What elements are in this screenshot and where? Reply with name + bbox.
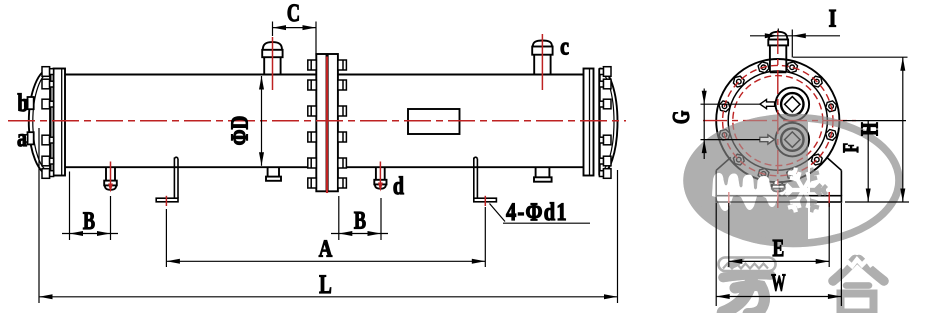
dimension G: [703, 89, 705, 160]
gray ring right part: [687, 118, 899, 244]
drain stub mid: [267, 167, 269, 176]
bottom nozzle left: [105, 167, 107, 180]
red bolt circles: [723, 65, 833, 175]
svg-text:B: B: [83, 207, 95, 234]
wan glyph strokes: [723, 275, 771, 313]
svg-text:F: F: [840, 143, 864, 153]
nameplate: [408, 109, 460, 134]
dimension B left: [69, 172, 71, 241]
svg-text:C: C: [287, 0, 300, 27]
right dome head: [600, 69, 618, 176]
nozzle a (axial stub): [28, 132, 34, 144]
gray left lobe of ellipse: [687, 118, 899, 244]
wan brush wedge: [727, 258, 745, 268]
shell body: [65, 74, 585, 76]
left end bolts: [42, 67, 54, 179]
he glyph: [833, 260, 884, 313]
middle flange bolts: [308, 60, 347, 188]
svg-text:A: A: [319, 235, 333, 262]
top nozzle c: [533, 55, 535, 75]
LEFTDIMS: [17, 0, 617, 303]
label 4-Phid1 with leader: [490, 204, 506, 222]
snow cap on he roof: [841, 260, 872, 269]
white crown W cutout: [712, 173, 779, 211]
upper nozzle flange: [776, 88, 810, 122]
left bonnet flange face: [49, 69, 51, 176]
bolt hexagons: [719, 62, 836, 179]
nozzle d: [375, 167, 377, 180]
LEFTVIEW: [8, 34, 626, 206]
dimension A: [165, 209, 167, 267]
svg-text:E: E: [772, 234, 784, 261]
dimension B right: [338, 196, 340, 240]
crown cover: [712, 173, 779, 211]
right end bolts: [599, 67, 611, 179]
gasket red line: [326, 57, 328, 194]
support 1: [156, 157, 178, 202]
flow arrow lower (right): [760, 135, 775, 144]
svg-text:b: b: [17, 89, 28, 117]
svg-text:B: B: [354, 207, 366, 234]
nozzle b (axial stub): [28, 97, 34, 109]
dimension C: [272, 22, 274, 37]
bottom drain stub: [773, 181, 775, 185]
left dome head: [29, 69, 51, 176]
right bonnet flange face: [598, 69, 600, 176]
WATERMARK OVERLAY: [687, 118, 899, 313]
snowflake: gray on white: [772, 159, 834, 222]
support 2: [474, 157, 497, 202]
pill banner: [719, 258, 776, 272]
saddle support: [716, 157, 841, 202]
flow arrow upper (left): [760, 100, 775, 109]
snowflake: white on gray lobe: [772, 159, 834, 222]
right tubesheet plate: [584, 69, 594, 176]
dimension PhiD: [261, 76, 263, 166]
svg-text:a: a: [17, 124, 27, 152]
top nozzle: [769, 45, 771, 72]
middle flange pair: [316, 54, 326, 191]
red nozzle centerlines: [108, 34, 542, 206]
svg-text:I: I: [829, 4, 837, 32]
svg-text:4-Φd1: 4-Φd1: [506, 198, 568, 225]
svg-text:d: d: [393, 172, 404, 200]
dimension L: [38, 128, 40, 303]
svg-text:ΦD: ΦD: [227, 116, 254, 146]
inner circle: [728, 71, 827, 170]
lower nozzle flange: [776, 123, 810, 157]
svg-text:c: c: [560, 32, 569, 60]
red centerlines: [703, 30, 856, 208]
svg-text:W: W: [771, 270, 786, 297]
red centerline main: [8, 120, 626, 122]
left tubesheet plate: [54, 69, 66, 176]
dimension W: [715, 203, 717, 306]
ENDDIMS: [667, 4, 909, 306]
dimension I: [750, 35, 840, 37]
dimension F: [843, 120, 906, 122]
svg-text:L: L: [319, 270, 332, 299]
drain stub right: [535, 167, 537, 177]
dimension H: [793, 56, 908, 58]
top nozzle 1: [263, 57, 265, 74]
svg-text:H: H: [856, 122, 883, 136]
svg-text:G: G: [667, 110, 694, 124]
dimension E: [728, 203, 730, 267]
outer flange circle: [716, 59, 839, 182]
ENDVIEW: [703, 30, 856, 221]
